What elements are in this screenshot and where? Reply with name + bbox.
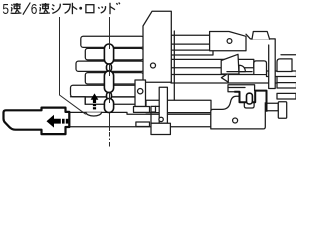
up arrow dash 1 <box>93 104 96 106</box>
katakana do <box>110 3 120 15</box>
fork prong <box>254 61 267 74</box>
link hole <box>159 117 163 121</box>
big bottom-right block <box>211 96 265 129</box>
kanji soku 1 <box>11 3 22 13</box>
interlock capsule 3 <box>104 99 113 113</box>
katakana shi <box>52 4 60 14</box>
hidden edge line <box>173 31 175 100</box>
right rod band B <box>171 75 277 84</box>
housing outline <box>246 34 275 88</box>
interlock connector 2 <box>107 93 112 100</box>
arm foot <box>136 122 150 127</box>
detent bump arc <box>86 112 102 116</box>
selector block <box>210 32 246 51</box>
label text 5 <box>2 1 9 18</box>
fullwidth slash <box>23 3 30 15</box>
shift rod 2 <box>85 48 143 60</box>
top rod under line <box>171 51 213 55</box>
tab <box>252 32 270 40</box>
clamp capsule <box>247 93 253 104</box>
rod5 lower bracket <box>71 97 86 104</box>
fork base line <box>227 71 252 73</box>
right stub band <box>266 103 278 110</box>
shift rod 3 <box>76 61 144 71</box>
centerline solid part <box>109 17 111 103</box>
up arrow dash 2 <box>93 107 96 109</box>
kanji soku 2 <box>39 3 50 13</box>
selector hole <box>227 39 232 44</box>
right rod band C <box>228 85 255 92</box>
bold clamp bracket <box>234 91 266 112</box>
up arrow (black) <box>91 93 99 103</box>
link foot <box>151 123 170 134</box>
interlock capsule 2 <box>104 71 113 93</box>
arrow dash 2 <box>66 119 69 124</box>
interlock capsule 1 <box>104 44 113 113</box>
middle dot <box>79 7 82 10</box>
right edge band 2 <box>277 83 297 88</box>
link bar <box>159 87 167 123</box>
katakana to <box>72 3 77 14</box>
katakana fu <box>63 4 70 13</box>
front rod (long bottom rod) <box>70 112 212 126</box>
arm step plate <box>134 107 150 113</box>
rear rod band right <box>146 100 211 112</box>
label text 6 <box>31 1 38 18</box>
link L-bracket <box>151 106 159 123</box>
right rod band A <box>171 59 254 67</box>
fork arm <box>221 54 239 74</box>
right stub end plate <box>278 102 286 119</box>
lower arm <box>135 80 146 107</box>
shift rod 5 <box>71 85 144 97</box>
katakana ro <box>86 5 94 13</box>
svg-text:6: 6 <box>31 1 38 18</box>
arrow dash 1 <box>62 119 65 124</box>
band B cone cap <box>221 73 228 82</box>
centerline dash-dot part <box>109 113 111 132</box>
katakana small tsu <box>98 6 105 13</box>
shift rod 1 <box>81 36 144 47</box>
central tall block <box>143 11 171 82</box>
top rod right section <box>171 35 210 44</box>
svg-text:5: 5 <box>2 1 9 18</box>
block hole <box>233 118 238 123</box>
clamp white underlay <box>240 91 267 102</box>
band C inner line <box>228 87 245 89</box>
block hole <box>151 63 156 68</box>
top rod right lower line <box>171 44 210 50</box>
right column <box>269 39 276 89</box>
far right band to edge <box>277 93 296 99</box>
right rounded block <box>277 59 292 72</box>
interlock connector 1 <box>107 64 112 71</box>
bold shift rod with arrow <box>4 108 70 135</box>
left arrow (black) <box>47 115 61 128</box>
shift rod 4 <box>85 73 143 84</box>
rear rod band left <box>85 97 143 104</box>
leader line <box>60 17 86 114</box>
far-right thin rod line <box>281 54 296 56</box>
arm hole <box>138 89 143 94</box>
right edge band 1 <box>267 71 297 77</box>
fork foot curve <box>239 65 245 71</box>
